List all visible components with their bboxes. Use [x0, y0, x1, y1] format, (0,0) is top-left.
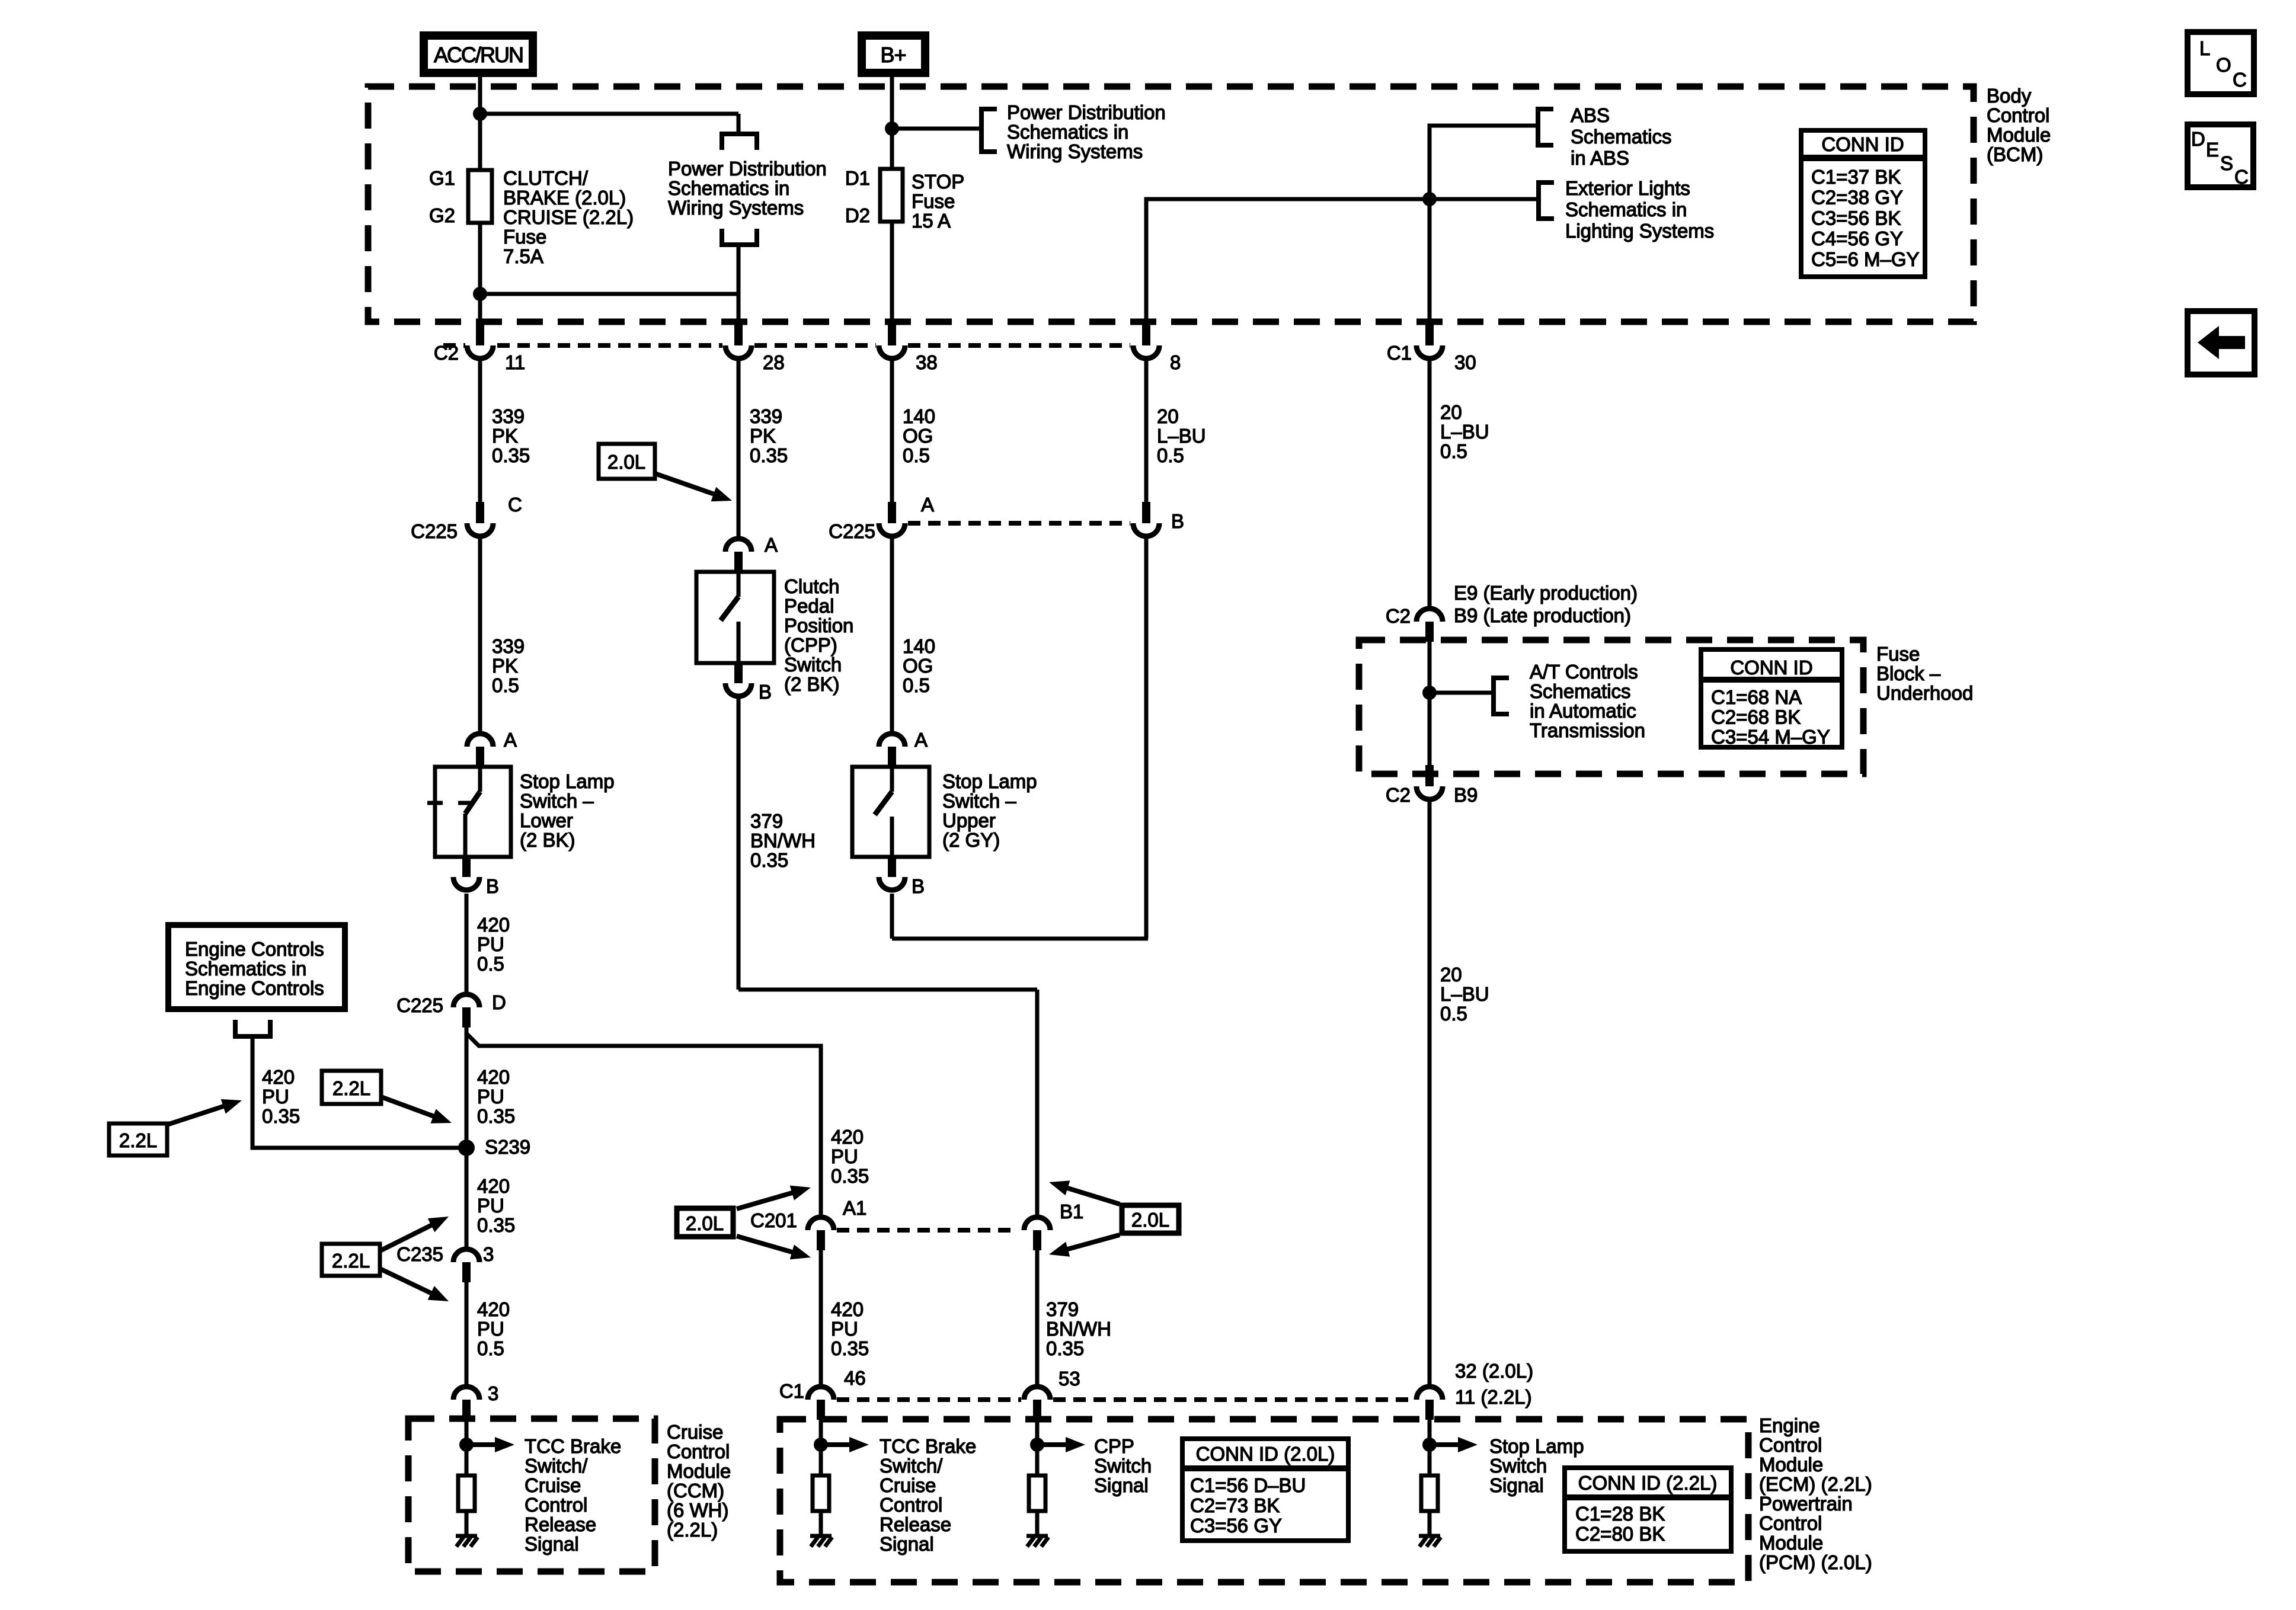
- svg-text:C2=38 GY: C2=38 GY: [1811, 187, 1903, 209]
- label C2: [434, 342, 459, 364]
- switch U? Clutch Pedal Position (CPP) Switch box: [696, 572, 774, 663]
- junction on B+ feed: [885, 121, 899, 136]
- svg-text:E: E: [2206, 139, 2219, 161]
- svg-text:Control: Control: [667, 1441, 730, 1462]
- connector C2 pin 11: [467, 324, 493, 359]
- svg-text:B+: B+: [880, 43, 906, 67]
- svg-text:140: 140: [903, 635, 935, 657]
- svg-text:B: B: [912, 875, 925, 897]
- CPP switch contacts: [721, 572, 738, 663]
- svg-text:CONN ID (2.2L): CONN ID (2.2L): [1578, 1472, 1718, 1494]
- svg-text:B: B: [1171, 510, 1184, 532]
- svg-text:Signal: Signal: [880, 1533, 934, 1555]
- connector CPP cavity A: [725, 539, 752, 572]
- svg-text:E9 (Early production): E9 (Early production): [1454, 582, 1638, 604]
- svg-text:C3=54 M–GY: C3=54 M–GY: [1711, 726, 1830, 748]
- svg-text:A/T Controls: A/T Controls: [1530, 661, 1638, 683]
- wire pin 3 into CCM: [465, 1420, 469, 1475]
- svg-text:Wiring Systems: Wiring Systems: [668, 197, 804, 219]
- wire 420 PU 0.35 (A1 to C1-46): [819, 1250, 823, 1385]
- tag 2.2L (engine controls leg): [109, 1093, 244, 1156]
- svg-text:PU: PU: [477, 933, 504, 955]
- SLS lower contacts: [427, 767, 480, 857]
- connector C225 cavity D: [453, 994, 479, 1028]
- wire 140 OG 0.5 (pin 38): [890, 361, 894, 503]
- svg-text:Signal: Signal: [1489, 1474, 1544, 1496]
- label 420 PU 0.35 (left, above S239): [477, 1066, 515, 1127]
- label Exterior Lights Schematics in Lighting Systems: [1565, 177, 1714, 242]
- arrow TCC signal (CCM): [466, 1437, 514, 1452]
- ECM CONN ID (2.2L) table: [1565, 1468, 1731, 1551]
- connector CPP cavity B: [725, 662, 752, 696]
- svg-text:(6 WH): (6 WH): [667, 1499, 728, 1521]
- label CLUTCH/BRAKE (2.0L) CRUISE (2.2L) Fuse 7.5A: [503, 167, 634, 267]
- label Stop Lamp Switch Signal: [1489, 1435, 1584, 1496]
- svg-text:L: L: [2199, 37, 2210, 59]
- svg-text:339: 339: [492, 635, 525, 657]
- switch Stop Lamp Switch - Upper box: [852, 767, 929, 857]
- wire exterior lights net: [1146, 199, 1539, 324]
- Cruise Control Module (CCM) dashed box: [408, 1419, 655, 1571]
- svg-text:L–BU: L–BU: [1440, 983, 1489, 1005]
- svg-text:(ECM) (2.2L): (ECM) (2.2L): [1759, 1473, 1872, 1495]
- label 420 PU 0.35 (A1 to C1-46): [831, 1298, 869, 1359]
- svg-text:Power Distribution: Power Distribution: [668, 158, 827, 180]
- ground (ECM TCC): [810, 1536, 832, 1547]
- svg-text:A: A: [765, 534, 778, 556]
- wire pin 53 into ECM: [1035, 1420, 1040, 1475]
- svg-text:Stop Lamp: Stop Lamp: [520, 770, 615, 792]
- svg-text:(2.2L): (2.2L): [667, 1519, 718, 1541]
- svg-text:Power Distribution: Power Distribution: [1007, 101, 1166, 123]
- svg-text:CPP: CPP: [1094, 1435, 1134, 1457]
- svg-text:(BCM): (BCM): [1987, 143, 2043, 165]
- svg-text:0.5: 0.5: [492, 674, 519, 696]
- power feed label B+: [862, 36, 925, 73]
- svg-text:420: 420: [477, 1175, 510, 1197]
- label 420 PU 0.35 (below S239): [477, 1175, 515, 1236]
- label pin 3 (CCM): [488, 1382, 498, 1404]
- wire 379 BN/WH 0.35 (B1 to pin 53): [1035, 1250, 1040, 1385]
- svg-text:Signal: Signal: [1094, 1474, 1149, 1496]
- off-page bracket (top) Power Distribution: [722, 134, 757, 150]
- svg-text:S239: S239: [485, 1136, 530, 1158]
- label C1: [1387, 342, 1412, 364]
- svg-text:Powertrain: Powertrain: [1759, 1493, 1853, 1515]
- svg-text:C: C: [508, 494, 522, 516]
- svg-text:PK: PK: [750, 425, 776, 447]
- reference box Engine Controls Schematics in Engine Controls: [168, 925, 345, 1009]
- connector pin 3 (CCM): [453, 1387, 479, 1420]
- junction A/T controls branch: [1422, 686, 1437, 700]
- svg-text:C: C: [2233, 69, 2247, 91]
- tag 2.2L (C235): [322, 1209, 452, 1308]
- connector Stop Lamp Upper cavity B: [879, 856, 905, 890]
- off-page bracket (bottom) Power Distribution: [722, 229, 757, 245]
- label Power Distribution Schematics in Wiring Systems (B+): [1007, 101, 1166, 162]
- label 339 PK 0.5: [492, 635, 525, 696]
- label cavity A (C225): [921, 494, 934, 516]
- svg-text:Switch –: Switch –: [942, 790, 1016, 812]
- svg-text:(2 BK): (2 BK): [520, 829, 575, 851]
- svg-text:420: 420: [262, 1066, 295, 1088]
- wire resistor to ground (CPP): [1035, 1511, 1040, 1536]
- connector C201 cavity B1: [1024, 1217, 1050, 1250]
- svg-text:Control: Control: [1759, 1434, 1822, 1456]
- label B9 (Late production): [1454, 604, 1631, 626]
- svg-text:D1: D1: [845, 167, 870, 189]
- wire fuse output branch right: [480, 292, 738, 296]
- wire from Engine Controls bracket to S239: [252, 1036, 466, 1148]
- label C235: [396, 1243, 443, 1265]
- svg-text:C1=68 NA: C1=68 NA: [1711, 686, 1802, 708]
- connector C235 cavity 3: [453, 1249, 479, 1282]
- label pin 46: [844, 1367, 866, 1389]
- svg-text:D: D: [2191, 128, 2205, 150]
- wire 140 OG 0.5 (lower): [890, 539, 894, 732]
- arrow CPP signal: [1037, 1437, 1085, 1452]
- fuse D1/D2 STOP 15A: [880, 169, 903, 222]
- svg-text:20: 20: [1440, 401, 1462, 423]
- svg-text:C2: C2: [434, 342, 459, 364]
- svg-text:A: A: [921, 494, 934, 516]
- svg-text:Schematics in: Schematics in: [1565, 199, 1687, 220]
- junction Stop Lamp signal: [1422, 1438, 1437, 1452]
- resistor (CPP signal): [1029, 1475, 1045, 1511]
- ECM CONN ID (2.0L) table: [1182, 1439, 1348, 1541]
- svg-text:C225: C225: [411, 520, 458, 542]
- svg-text:C5=6 M–GY: C5=6 M–GY: [1811, 248, 1920, 270]
- svg-text:Module: Module: [1759, 1454, 1823, 1475]
- svg-text:379: 379: [750, 810, 783, 832]
- connector cavity B (pin 8 wire): [1133, 502, 1159, 536]
- wire 20 L-BU 0.5 (pin 30): [1428, 361, 1432, 607]
- off-page bracket below Engine Controls box: [235, 1020, 270, 1036]
- svg-text:OG: OG: [903, 425, 933, 447]
- svg-text:(CPP): (CPP): [784, 634, 837, 656]
- svg-text:Module: Module: [667, 1460, 731, 1482]
- svg-text:Position: Position: [784, 614, 853, 636]
- svg-text:Engine Controls: Engine Controls: [185, 977, 324, 999]
- connector row dashed line (C2/C1): [443, 343, 1130, 348]
- connector C201 cavity A1: [808, 1217, 834, 1250]
- svg-text:420: 420: [477, 1066, 510, 1088]
- svg-text:ABS: ABS: [1571, 104, 1610, 126]
- off-page bracket Power Distribution (B+): [981, 109, 997, 152]
- Body Control Module (BCM) dashed box: [368, 87, 1974, 322]
- svg-text:C225: C225: [396, 994, 443, 1016]
- junction CPP signal: [1030, 1438, 1044, 1452]
- svg-text:0.5: 0.5: [903, 674, 930, 696]
- label C2 (E9/B9): [1386, 605, 1411, 627]
- label 420 PU 0.5 (B to C225 D): [477, 914, 510, 975]
- svg-text:0.35: 0.35: [750, 849, 788, 871]
- wire 379 BN/WH (CPP B down): [738, 699, 1037, 1216]
- svg-text:C2=68 BK: C2=68 BK: [1711, 706, 1801, 728]
- off-page bracket A/T Controls: [1494, 678, 1509, 714]
- wire branch to C201 A1: [466, 1033, 821, 1216]
- svg-text:339: 339: [492, 405, 525, 427]
- svg-text:PU: PU: [477, 1086, 504, 1108]
- wire pin 32/11 into ECM: [1428, 1420, 1432, 1475]
- svg-text:B9 (Late production): B9 (Late production): [1454, 604, 1631, 626]
- svg-text:Switch/: Switch/: [880, 1455, 943, 1477]
- svg-text:28: 28: [763, 351, 785, 373]
- svg-text:339: 339: [750, 405, 782, 427]
- junction TCC signal (ECM): [814, 1438, 828, 1452]
- junction fuse output: [473, 287, 487, 301]
- svg-text:11: 11: [505, 351, 525, 373]
- arrow Stop Lamp signal: [1430, 1437, 1478, 1452]
- svg-text:ACC/RUN: ACC/RUN: [434, 43, 523, 67]
- svg-text:BRAKE (2.0L): BRAKE (2.0L): [503, 187, 626, 209]
- svg-text:Control: Control: [1759, 1512, 1822, 1534]
- label C235 cavity 3: [483, 1243, 494, 1265]
- resistor (ECM TCC): [813, 1475, 829, 1511]
- label Body Control Module (BCM): [1987, 85, 2051, 165]
- label B9 (bottom): [1454, 784, 1478, 806]
- label A1: [843, 1197, 866, 1219]
- svg-text:Wiring Systems: Wiring Systems: [1007, 140, 1143, 162]
- wire B+ branch to off-page: [892, 127, 981, 131]
- svg-text:Module: Module: [1759, 1532, 1823, 1554]
- svg-text:Transmission: Transmission: [1530, 719, 1645, 741]
- label pin 53: [1059, 1368, 1080, 1390]
- label Clutch Pedal Position (CPP) Switch (2 BK): [784, 575, 853, 695]
- svg-text:Control: Control: [880, 1494, 942, 1516]
- connector C1 pin 30: [1416, 324, 1443, 359]
- label TCC Brake Switch/Cruise Control Release Signal (CCM): [525, 1435, 621, 1555]
- svg-text:Body: Body: [1987, 85, 2032, 107]
- label 11 (2.2L): [1455, 1386, 1532, 1408]
- label pin 11: [505, 351, 525, 373]
- svg-text:3: 3: [488, 1382, 498, 1404]
- wire 20 L-BU 0.5 (pin 8): [1144, 361, 1149, 503]
- ground (CCM): [456, 1536, 478, 1547]
- svg-text:7.5A: 7.5A: [503, 245, 543, 267]
- label 20 L-BU 0.5 (pin 30): [1440, 401, 1489, 462]
- wire from bracket to pin 28: [737, 245, 741, 324]
- label 140 OG 0.5 (lower): [903, 635, 935, 696]
- svg-text:3: 3: [483, 1243, 494, 1265]
- svg-text:in ABS: in ABS: [1571, 147, 1629, 169]
- wire branch to pin 28 leg: [480, 112, 738, 116]
- label 420 PU 0.35 (engine controls leg): [262, 1066, 300, 1127]
- label C2 (B9 bottom): [1386, 784, 1411, 806]
- label Stop Lamp Switch - Lower (2 BK): [520, 770, 615, 851]
- svg-text:0.5: 0.5: [903, 444, 930, 466]
- svg-text:(CCM): (CCM): [667, 1480, 724, 1502]
- svg-text:D: D: [492, 991, 506, 1013]
- svg-text:C235: C235: [396, 1243, 443, 1265]
- svg-text:30: 30: [1454, 351, 1476, 373]
- tag 2.0L (pin 28 wire): [599, 444, 734, 508]
- label pin 8: [1170, 351, 1181, 373]
- svg-text:PU: PU: [477, 1195, 504, 1217]
- svg-text:379: 379: [1046, 1298, 1079, 1320]
- label C1 (ECM): [779, 1380, 804, 1402]
- label Power Distribution Schematics in Wiring Systems (left): [668, 158, 827, 219]
- resistor (Stop Lamp signal): [1421, 1475, 1438, 1511]
- legend box back-arrow: [2188, 311, 2255, 375]
- svg-text:Stop Lamp: Stop Lamp: [1489, 1435, 1584, 1457]
- label Cruise Control Module (CCM) (6 WH) (2.2L): [667, 1421, 731, 1541]
- connector C2 cavity E9/B9 (top): [1416, 609, 1443, 642]
- label TCC Brake Switch/Cruise Control Release Signal (ECM): [880, 1435, 976, 1555]
- connector C225 cavity A: [879, 502, 905, 536]
- svg-text:PK: PK: [492, 655, 518, 677]
- wire 339 PK 0.35 (pin 28): [737, 361, 741, 537]
- label C225 (C): [411, 520, 458, 542]
- wire 339 PK 0.35 (pin 11): [478, 361, 482, 503]
- legend box DESC: [2188, 124, 2253, 188]
- svg-text:PU: PU: [831, 1318, 858, 1340]
- svg-text:(2 GY): (2 GY): [942, 829, 1000, 851]
- svg-text:Block –: Block –: [1876, 662, 1941, 684]
- label pin 38: [916, 351, 938, 373]
- svg-text:140: 140: [903, 405, 935, 427]
- svg-text:53: 53: [1059, 1368, 1080, 1390]
- wire 339 PK 0.5: [478, 539, 482, 732]
- svg-text:B: B: [486, 875, 499, 897]
- label D1: [845, 167, 870, 189]
- svg-text:O: O: [2216, 54, 2231, 76]
- wire fuse output down: [478, 223, 482, 324]
- svg-text:Release: Release: [525, 1513, 596, 1535]
- connector pin 32/11: [1416, 1387, 1443, 1420]
- svg-text:D2: D2: [845, 204, 870, 226]
- connector C225 cavity C: [467, 502, 493, 536]
- connector C1 pin 46: [808, 1387, 834, 1420]
- Fuse Block - Underhood dashed box: [1359, 640, 1863, 774]
- power feed label ACC/RUN: [424, 36, 533, 73]
- label Fuse Block - Underhood: [1876, 643, 1973, 704]
- SLS upper contacts: [875, 767, 892, 857]
- label CPP Switch Signal: [1094, 1435, 1152, 1496]
- label C201: [750, 1209, 797, 1231]
- svg-text:PU: PU: [831, 1145, 858, 1167]
- C201 row dashed line: [837, 1228, 1018, 1233]
- svg-text:OG: OG: [903, 655, 933, 677]
- tag 2.0L (C201 left): [677, 1180, 813, 1265]
- wire ACC/RUN feed down: [478, 75, 482, 170]
- svg-text:0.5: 0.5: [477, 1337, 504, 1359]
- label SLS upper cavity B: [912, 875, 925, 897]
- label 379 BN/WH 0.35 (B1 to pin 53): [1046, 1298, 1111, 1359]
- splice S239: [458, 1140, 475, 1156]
- svg-text:0.5: 0.5: [477, 953, 504, 975]
- svg-text:B1: B1: [1060, 1201, 1083, 1222]
- svg-text:Pedal: Pedal: [784, 595, 834, 617]
- wire 420 PU 0.5 (B to C225 D): [465, 894, 469, 993]
- svg-text:Underhood: Underhood: [1876, 682, 1973, 704]
- wire B+ feed down: [890, 75, 894, 169]
- svg-text:Fuse: Fuse: [912, 190, 955, 212]
- wire STOP fuse output: [890, 222, 894, 324]
- label cavity C: [508, 494, 522, 516]
- svg-text:C1: C1: [779, 1380, 804, 1402]
- svg-text:Clutch: Clutch: [784, 575, 840, 597]
- label cavity B (pin 8 wire): [1171, 510, 1184, 532]
- svg-text:TCC Brake: TCC Brake: [525, 1435, 621, 1457]
- svg-text:Switch: Switch: [784, 654, 842, 676]
- svg-text:CONN ID (2.0L): CONN ID (2.0L): [1196, 1443, 1335, 1465]
- label 32 (2.0L): [1455, 1360, 1533, 1382]
- svg-text:Schematics: Schematics: [1530, 680, 1631, 702]
- Engine/Powertrain Control Module dashed box: [780, 1419, 1748, 1582]
- svg-text:Engine: Engine: [1759, 1414, 1820, 1436]
- svg-text:Schematics: Schematics: [1571, 126, 1672, 148]
- svg-text:STOP: STOP: [912, 171, 964, 193]
- svg-text:Module: Module: [1987, 124, 2051, 146]
- svg-text:L–BU: L–BU: [1157, 425, 1206, 447]
- svg-text:Schematics in: Schematics in: [668, 177, 789, 199]
- svg-text:0.35: 0.35: [1046, 1337, 1084, 1359]
- svg-text:0.5: 0.5: [1440, 440, 1467, 462]
- svg-text:G2: G2: [429, 204, 455, 226]
- svg-text:C1: C1: [1387, 342, 1412, 364]
- svg-text:Schematics in: Schematics in: [1007, 121, 1128, 143]
- junction exterior lights / C1-30 leg: [1422, 192, 1437, 206]
- svg-text:CONN ID: CONN ID: [1730, 657, 1812, 678]
- svg-text:420: 420: [477, 1298, 510, 1320]
- svg-text:2.0L: 2.0L: [1131, 1209, 1169, 1231]
- label pin 30: [1454, 351, 1476, 373]
- svg-text:Lighting Systems: Lighting Systems: [1565, 220, 1714, 242]
- Fuse Block CONN ID table: [1701, 649, 1842, 748]
- C225 row dashed line: [908, 521, 1130, 526]
- label B1: [1060, 1201, 1083, 1222]
- svg-text:2.2L: 2.2L: [119, 1129, 157, 1151]
- label SLS lower cavity A: [504, 729, 517, 751]
- svg-text:0.35: 0.35: [477, 1214, 515, 1236]
- svg-text:C201: C201: [750, 1209, 797, 1231]
- svg-text:C3=56 GY: C3=56 GY: [1190, 1515, 1282, 1537]
- svg-text:Engine Controls: Engine Controls: [185, 938, 324, 960]
- svg-text:(2 BK): (2 BK): [784, 673, 840, 695]
- label ABS Schematics in ABS: [1571, 104, 1672, 169]
- svg-text:Cruise: Cruise: [667, 1421, 723, 1443]
- svg-text:S: S: [2220, 152, 2233, 174]
- label A/T Controls Schematics in Automatic Transmission: [1530, 661, 1645, 741]
- off-page bracket ABS: [1538, 109, 1553, 145]
- svg-text:PU: PU: [477, 1318, 504, 1340]
- svg-text:0.35: 0.35: [750, 444, 788, 466]
- svg-text:38: 38: [916, 351, 938, 373]
- svg-text:CLUTCH/: CLUTCH/: [503, 167, 589, 189]
- wire resistor to ground (ECM TCC): [819, 1511, 823, 1536]
- label G1: [429, 167, 455, 189]
- svg-text:PU: PU: [262, 1086, 289, 1108]
- svg-text:C3=56 BK: C3=56 BK: [1811, 207, 1901, 229]
- svg-text:G1: G1: [429, 167, 455, 189]
- svg-text:Schematics in: Schematics in: [185, 958, 306, 980]
- svg-text:C2=73 BK: C2=73 BK: [1190, 1494, 1280, 1516]
- wire inside fuse block: [1428, 642, 1432, 767]
- svg-text:TCC Brake: TCC Brake: [880, 1435, 976, 1457]
- label SLS lower cavity B: [486, 875, 499, 897]
- svg-text:B9: B9: [1454, 784, 1478, 806]
- ground (Stop Lamp signal): [1419, 1536, 1441, 1547]
- label 420 PU 0.35 (A1 branch): [831, 1126, 869, 1187]
- svg-text:in Automatic: in Automatic: [1530, 700, 1636, 722]
- svg-text:B: B: [759, 681, 772, 703]
- connector pin 53: [1024, 1387, 1050, 1420]
- svg-text:8: 8: [1170, 351, 1181, 373]
- label STOP Fuse 15 A: [912, 171, 964, 232]
- connector pin 28: [725, 324, 752, 359]
- wire pin 46 into ECM: [819, 1420, 823, 1475]
